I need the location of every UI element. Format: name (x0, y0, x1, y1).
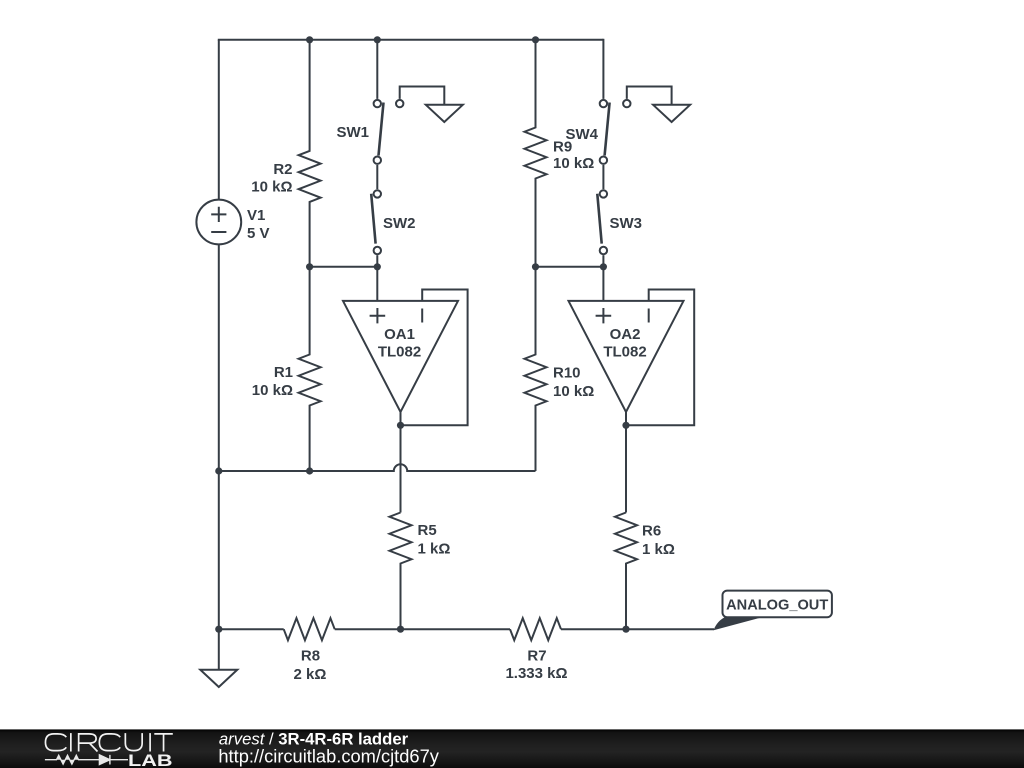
svg-text:10 kΩ: 10 kΩ (553, 383, 594, 400)
wire OA2 output (625, 412, 627, 513)
node top rail / SW1 (374, 36, 381, 43)
resistor R8 (284, 618, 335, 683)
svg-text:10 kΩ: 10 kΩ (252, 382, 293, 399)
svg-text:5 V: 5 V (247, 225, 270, 242)
svg-text:OA2: OA2 (610, 326, 641, 343)
ground (bottom) (200, 670, 237, 687)
node bottom rail / V1-ground (215, 626, 222, 633)
svg-text:R7: R7 (527, 648, 546, 665)
wire SW1 top lead (376, 40, 378, 99)
node mid rail / R2-R1 (306, 263, 313, 270)
wire SW2 node to OA1 + input (376, 267, 378, 301)
wire SW3 bottom lead (602, 255, 604, 267)
wire OA1 output (400, 412, 402, 513)
svg-text:V1: V1 (247, 207, 265, 224)
switch SW4 (565, 100, 609, 164)
svg-text:R1: R1 (274, 364, 293, 381)
wire OA1 feedback (401, 290, 468, 426)
svg-text:R10: R10 (553, 365, 581, 382)
svg-text:http://circuitlab.com/cjtd67y: http://circuitlab.com/cjtd67y (218, 745, 439, 766)
wire OA2 feedback (626, 290, 694, 426)
wire mid rail left (310, 266, 378, 268)
resistor R5 (390, 513, 451, 630)
node mid rail / R9-R10 (532, 263, 539, 270)
svg-text:TL082: TL082 (603, 343, 646, 360)
resistor R2 (251, 40, 320, 267)
svg-text:OA1: OA1 (384, 326, 415, 343)
svg-text:1 kΩ: 1 kΩ (642, 541, 675, 558)
svg-text:SW2: SW2 (383, 215, 416, 232)
wire V1 bottom lead (218, 244, 220, 629)
voltage source V1 (196, 200, 269, 245)
svg-text:R8: R8 (301, 648, 320, 665)
svg-text:SW3: SW3 (610, 215, 643, 232)
wire SW2 bottom lead (376, 255, 378, 267)
wire throw to ground (left) (400, 87, 445, 105)
ground (top right) (653, 105, 690, 122)
resistor R10 (525, 267, 595, 471)
node mid rail / SW3 (600, 263, 607, 270)
node OA2 output / feedback (622, 422, 629, 429)
svg-text:LAB: LAB (128, 752, 173, 768)
wire bottom rail right (561, 628, 714, 630)
svg-text:10 kΩ: 10 kΩ (251, 179, 292, 196)
svg-text:R6: R6 (642, 523, 661, 540)
switch throw contact (left) (396, 100, 403, 107)
svg-text:SW4: SW4 (565, 126, 598, 143)
switch SW2 (371, 190, 415, 254)
switch SW3 (597, 190, 642, 254)
resistor R7 (505, 618, 567, 682)
wire ground stem bottom (218, 629, 220, 670)
wire SW1 to SW2 (376, 165, 378, 189)
resistor R1 (252, 267, 321, 471)
node mid rail / SW2 (374, 263, 381, 270)
logo CIRCUIT (45, 733, 172, 751)
wire throw to ground (right) (627, 87, 672, 105)
op-amp OA2 (569, 301, 684, 412)
node OA1 output / feedback (397, 422, 404, 429)
node top rail / R2 (306, 36, 313, 43)
wire top rail to SW4 (602, 39, 604, 99)
wire bottom rail left (219, 628, 284, 630)
node bottom rail / R5 (397, 626, 404, 633)
svg-text:SW1: SW1 (336, 124, 369, 141)
net flag ANALOG_OUT (714, 591, 832, 631)
wire SW3 node to OA2 + input (602, 267, 604, 301)
wire top rail (218, 39, 604, 41)
svg-text:R2: R2 (273, 161, 292, 178)
wire mid rail right (536, 266, 604, 268)
footer bar (0, 729, 1024, 768)
svg-text:R5: R5 (418, 522, 437, 539)
node top rail / R9 (532, 36, 539, 43)
resistor R9 (525, 40, 595, 267)
svg-text:2 kΩ: 2 kΩ (294, 666, 327, 683)
wire bottom rail mid (335, 628, 510, 630)
ground (top left) (426, 105, 463, 122)
switch throw contact (right) (623, 100, 630, 107)
node bottom rail / R6 (622, 626, 629, 633)
svg-text:1.333 kΩ: 1.333 kΩ (505, 665, 567, 682)
wire V1 top lead to top rail (218, 40, 220, 200)
op-amp OA1 (343, 301, 458, 412)
svg-text:10 kΩ: 10 kΩ (553, 155, 594, 172)
logo resistor-diode symbol (45, 755, 128, 765)
svg-text:ANALOG_OUT: ANALOG_OUT (726, 598, 828, 614)
svg-text:1 kΩ: 1 kΩ (418, 541, 451, 558)
wire SW4 to SW3 (602, 165, 604, 189)
svg-text:TL082: TL082 (378, 343, 421, 360)
node rail / V1 (215, 467, 222, 474)
resistor R6 (615, 513, 675, 630)
switch SW1 (336, 100, 383, 164)
node rail / R1 (306, 467, 313, 474)
wire bottom node rail with hop over OA1 output (219, 464, 536, 471)
